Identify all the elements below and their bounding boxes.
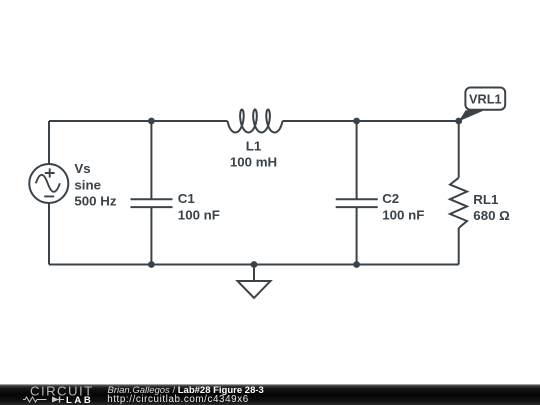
svg-text:RL1: RL1 xyxy=(473,192,499,207)
svg-text:100 nF: 100 nF xyxy=(178,208,220,223)
svg-text:VRL1: VRL1 xyxy=(469,92,502,107)
svg-text:C1: C1 xyxy=(178,191,196,206)
svg-text:Vs: Vs xyxy=(74,161,90,176)
svg-text:500 Hz: 500 Hz xyxy=(74,194,116,209)
svg-text:100 nF: 100 nF xyxy=(382,208,424,223)
svg-text:680 Ω: 680 Ω xyxy=(473,208,510,223)
svg-text:100 mH: 100 mH xyxy=(230,154,277,169)
svg-text:L1: L1 xyxy=(246,139,262,154)
svg-text:http://circuitlab.com/c4349x6: http://circuitlab.com/c4349x6 xyxy=(107,394,249,405)
svg-text:C2: C2 xyxy=(382,191,399,206)
svg-text:LAB: LAB xyxy=(66,395,93,405)
svg-text:sine: sine xyxy=(74,178,101,193)
